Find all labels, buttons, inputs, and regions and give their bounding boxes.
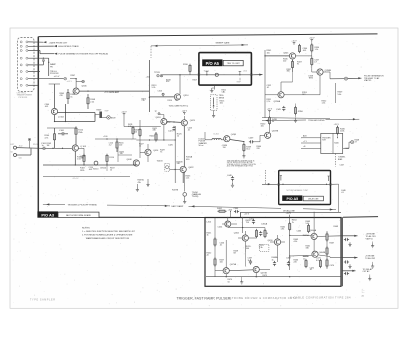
label R455: [246, 246, 252, 250]
wire center mid rail: [136, 139, 175, 140]
label pulse gen out: [364, 74, 384, 82]
potentiometer R309: [95, 110, 102, 118]
label P/O A5 middle dark: [282, 195, 302, 201]
label R317: [193, 80, 198, 82]
x-mark top box entry: [198, 74, 200, 76]
wire Q103 emitter down: [75, 151, 82, 165]
label C426: [168, 144, 174, 146]
svg-text:DELAY LINE: DELAY LINE: [308, 197, 319, 200]
power +6.5V feed: [70, 78, 77, 88]
label C446: [341, 190, 346, 194]
svg-text:43k: 43k: [138, 182, 141, 184]
svg-text:PICKOFF: PICKOFF: [19, 97, 28, 99]
power +15V S440: [334, 124, 340, 127]
svg-text:Q423: Q423: [190, 120, 196, 122]
wire pulse gen trigger pickoff: [28, 51, 57, 55]
svg-text:C447: C447: [340, 164, 344, 166]
label R454: [246, 220, 252, 224]
svg-text:+GATE FROM CRT: +GATE FROM CRT: [49, 41, 68, 44]
resistor R458: [255, 229, 257, 238]
tunnel diode TD433 dashed box: [157, 161, 170, 172]
svg-text:Q432: Q432: [188, 167, 194, 169]
label +100 mid: [103, 136, 107, 138]
wire Q314 collector up: [179, 75, 181, 94]
label P/O A5 top dark: [202, 59, 222, 66]
x-mark mid box exit: [329, 183, 331, 185]
label S440 out r: [355, 139, 360, 143]
svg-text:STROBE DRIVER & COMPARATOR: STROBE DRIVER & COMPARATOR CKTS: [230, 296, 297, 300]
wire top-right left rail: [264, 50, 266, 118]
transistor Q464A: [311, 233, 317, 239]
svg-text:R465A: R465A: [303, 234, 310, 237]
svg-text:+6.5 V: +6.5 V: [67, 81, 73, 83]
svg-text:220: 220: [294, 262, 297, 264]
label trig sens: [219, 95, 225, 105]
svg-text:Q459: Q459: [268, 240, 274, 242]
box bottom inner top: [241, 212, 342, 217]
svg-text:Q 103: Q 103: [80, 146, 87, 148]
wire dl in: [205, 132, 212, 140]
svg-text:FAST RAMP: FAST RAMP: [172, 205, 184, 208]
svg-text:TO A5 CB2: TO A5 CB2: [365, 257, 376, 260]
label R450: [261, 123, 267, 127]
switch S440 box: [321, 133, 343, 153]
label q314 base r: [168, 100, 178, 102]
svg-text:1→: 1→: [362, 289, 365, 291]
wire trig sens down: [212, 110, 215, 118]
wire above box drop: [230, 211, 232, 217]
label rampline: [142, 98, 147, 102]
svg-text:DL402: DL402: [214, 134, 219, 136]
svg-text:1k: 1k: [177, 136, 179, 138]
svg-text:6.8: 6.8: [316, 260, 319, 262]
svg-text:1M: 1M: [47, 145, 50, 147]
junction dots bus extra: [227, 212, 314, 219]
label Q464B: [319, 252, 326, 254]
resistor R453: [214, 237, 216, 266]
wire q464a up: [313, 212, 315, 233]
svg-text:5.6k: 5.6k: [338, 94, 342, 96]
svg-text:Q314: Q314: [183, 95, 189, 97]
power +50V: [121, 112, 127, 116]
label sweep cal: [222, 90, 227, 94]
svg-text:FAST HORIZONTAL BOARD: FAST HORIZONTAL BOARD: [66, 214, 92, 217]
wire y227 row: [228, 227, 265, 228]
resistor R438: [268, 113, 277, 132]
svg-text:100: 100: [119, 145, 122, 147]
wire vertical x65: [65, 104, 67, 122]
label Q436: [231, 134, 237, 136]
ground TD434: [183, 199, 186, 203]
label R405: [120, 151, 125, 155]
wire S440 in1: [301, 135, 321, 138]
label R421: [153, 128, 158, 132]
label Q454: [218, 227, 224, 229]
label output strobe: [366, 234, 377, 241]
resistor R104: [45, 132, 56, 148]
svg-text:Q358B: Q358B: [325, 70, 332, 72]
svg-text:PICKOFF: PICKOFF: [50, 73, 59, 75]
svg-text:C449: C449: [345, 148, 350, 150]
wire to Q437: [254, 135, 265, 142]
label R468A: [272, 256, 279, 261]
resistor R444: [217, 208, 227, 213]
svg-text:R437B: R437B: [172, 190, 179, 192]
svg-text:VIA P95: VIA P95: [364, 79, 372, 82]
power +15V Q345: [291, 41, 297, 45]
svg-text:C448: C448: [227, 175, 232, 177]
label L114: [109, 143, 114, 147]
label D358: [309, 75, 314, 79]
label Q473B: [261, 273, 268, 275]
svg-text:S440: S440: [334, 143, 338, 145]
wire Q418 top lead: [160, 115, 164, 119]
label Q414: [153, 150, 159, 152]
svg-text:J102: J102: [19, 145, 23, 147]
wire Q423 down rail: [184, 126, 192, 166]
wire s440 up feed: [337, 137, 338, 139]
svg-text:TD433: TD433: [157, 161, 164, 163]
svg-text:.001: .001: [89, 169, 93, 171]
ground output trigger: [371, 262, 374, 268]
resistor R343: [298, 44, 300, 53]
label bottombox extra7: [334, 226, 339, 228]
transistor Q423: [181, 120, 187, 126]
connector J1 label: [17, 93, 33, 99]
connector J1 pins: [20, 41, 28, 86]
wire delay line feed: [186, 168, 198, 170]
dimension fast ramp: [148, 205, 281, 209]
wire pin7 +6.5V: [28, 78, 64, 80]
revision marks: [362, 289, 365, 297]
capacitor C349: [276, 106, 285, 111]
label delay misc: [257, 146, 262, 150]
ground output minus: [368, 275, 371, 281]
svg-text:470: 470: [60, 95, 63, 97]
label C471: [316, 258, 321, 262]
label exit sweep: [237, 78, 242, 84]
svg-text:10: 10: [303, 258, 305, 260]
svg-text:C469: C469: [286, 258, 291, 260]
svg-text:HIGH SPEED TRAIN: HIGH SPEED TRAIN: [58, 45, 79, 48]
label R119: [110, 168, 115, 172]
label R351: [267, 99, 272, 103]
wire bottom rail topright: [262, 117, 330, 120]
capacitor edge3: [344, 272, 349, 275]
wire Q345 base: [264, 55, 289, 56]
svg-text:+TO GATE AMP: +TO GATE AMP: [104, 91, 120, 94]
svg-text:2.2: 2.2: [109, 145, 112, 147]
wire +gate from CRT: [28, 41, 46, 43]
label ramp hv: [50, 63, 56, 68]
svg-text:Q462: Q462: [234, 232, 240, 234]
svg-text:Q464B: Q464B: [319, 252, 326, 254]
potentiometer R315 trig sens: [213, 98, 215, 109]
wire lower bus Q304: [54, 121, 95, 122]
notes text: [82, 228, 136, 240]
box bottom right edge double: [341, 217, 343, 286]
wire Q414 up: [147, 144, 149, 162]
svg-text:C313: C313: [158, 91, 162, 93]
resistor R346 v: [291, 59, 293, 72]
svg-text:PULSE GENERATOR TRIGGER PICK O: PULSE GENERATOR TRIGGER PICK OFF FROM A2: [59, 53, 109, 56]
dimension sweep length: [151, 42, 248, 47]
svg-text:100: 100: [220, 261, 223, 263]
svg-text:Q437B: Q437B: [272, 131, 279, 133]
resistor R456 mid: [264, 228, 266, 239]
tunnel diode in box: [215, 73, 218, 76]
label bottombox extra5: [281, 227, 286, 231]
transistor Q459: [274, 239, 280, 245]
label top sub box: [223, 60, 243, 65]
box P/O A5 middle outline: [279, 171, 331, 205]
resistor R316: [183, 64, 191, 75]
svg-text:4.3k: 4.3k: [294, 241, 298, 243]
capacitor edge2: [344, 260, 349, 263]
resistor R439: [242, 143, 252, 158]
node circled plus: [76, 80, 84, 83]
transistor Q418: [161, 119, 167, 125]
label Q462: [234, 232, 240, 234]
label +gate from CRT: [49, 41, 68, 44]
svg-text:1k: 1k: [110, 170, 112, 172]
transistor Q437: [265, 132, 271, 138]
wire input to Q103: [47, 148, 72, 149]
resistor R407: [134, 128, 141, 137]
mech link S440: [335, 154, 337, 167]
wire Q304 emitter: [54, 115, 56, 122]
svg-text:TRIG: TRIG: [309, 77, 314, 79]
svg-text:47: 47: [355, 141, 357, 143]
svg-text:R417: R417: [166, 122, 171, 124]
wire left inner col: [214, 218, 216, 277]
wire Q358B collector out: [323, 72, 344, 79]
svg-text:1.8k: 1.8k: [281, 229, 285, 231]
svg-text:CKT A2: CKT A2: [363, 270, 371, 273]
label Q304 area r2: [45, 104, 51, 108]
svg-text:+15 V: +15 V: [244, 214, 250, 216]
label pulse gen trigger pickoff: [59, 53, 109, 56]
label output trigger: [365, 255, 376, 259]
svg-text:150: 150: [223, 147, 226, 149]
label R341: [267, 50, 273, 54]
power +50V topright: [309, 38, 315, 42]
wire top rail input: [47, 128, 76, 132]
dimension tick sweep: [150, 46, 152, 58]
wire Q459 leads: [270, 235, 285, 242]
svg-text:.001: .001: [303, 50, 307, 52]
label Q459: [268, 240, 274, 242]
input connector J103: [11, 148, 32, 159]
svg-text:C455A: C455A: [261, 222, 268, 225]
svg-text:.01: .01: [188, 130, 191, 132]
tunnel diode TD434: [183, 193, 187, 200]
wire Q418-Q423 link: [167, 121, 181, 122]
wire pin8: [28, 84, 38, 86]
svg-text:220: 220: [257, 148, 260, 150]
transistor Q414: [145, 149, 151, 155]
svg-text:1.5k: 1.5k: [315, 49, 319, 51]
label middle box note: [287, 189, 309, 192]
test point TP313: [162, 93, 164, 97]
box P/O A5 top outline: [199, 53, 252, 86]
label bottombox extra8: [310, 267, 315, 271]
label C344: [303, 48, 309, 52]
wire right col comps: [326, 231, 328, 269]
svg-text:+15 V: +15 V: [267, 109, 273, 111]
svg-text:TD310: TD310: [204, 70, 209, 72]
wire pin4 to node: [28, 58, 49, 59]
label L454: [207, 222, 212, 224]
label R446b: [306, 221, 311, 225]
resistor right col a: [326, 232, 328, 267]
svg-text:4.7k: 4.7k: [45, 137, 49, 139]
svg-text:R469: R469: [334, 226, 339, 228]
transistor Q314: [174, 94, 180, 100]
svg-text:Q414: Q414: [153, 150, 159, 152]
svg-text:R317: R317: [193, 80, 198, 82]
label Q464A: [310, 229, 317, 232]
wire delayline left: [200, 136, 212, 138]
dimension trigger drive: [262, 118, 359, 122]
label +6.5 row2: [67, 81, 73, 83]
svg-text:C463: C463: [297, 231, 302, 233]
svg-text:10k: 10k: [134, 131, 137, 133]
svg-text:R475: R475: [263, 275, 268, 277]
resistor R110: [75, 127, 84, 145]
label Q432: [188, 167, 194, 169]
wire x95 vertical: [94, 113, 96, 122]
label R103: [47, 143, 52, 147]
label R427: [139, 144, 144, 148]
label R431B: [177, 161, 184, 165]
svg-text:MAINTENANCE AND CIRCUIT DES: MAINTENANCE AND CIRCUIT DESCRIPTION: [86, 237, 130, 240]
svg-text:NOT REPLACEABLE T UNIT: NOT REPLACEABLE T UNIT: [287, 189, 309, 192]
svg-text:+15 V: +15 V: [291, 41, 297, 43]
capacitor C465 row: [249, 259, 290, 266]
label R470: [303, 256, 308, 260]
resistor R446: [336, 126, 345, 137]
svg-text:R314: R314: [168, 100, 172, 102]
svg-text:100k: 100k: [340, 131, 344, 133]
component middle box right: [328, 176, 330, 181]
box bottom board outline: [205, 218, 341, 287]
svg-text:Q306: Q306: [82, 85, 88, 87]
label DL402: [199, 139, 208, 148]
label Q345: [283, 52, 289, 54]
wire r112 top: [78, 148, 84, 155]
label dl top: [214, 134, 219, 136]
label +150V: [228, 209, 233, 211]
wire bottom row link: [215, 270, 270, 271]
label R466: [294, 259, 299, 263]
component in box tick2: [239, 71, 242, 74]
svg-text:1n: 1n: [42, 145, 44, 147]
label C110: [89, 167, 94, 171]
svg-text:6.8k: 6.8k: [128, 126, 132, 128]
wire lower bus input: [43, 164, 136, 165]
wire S440 in3: [301, 146, 321, 148]
capacitor C102: [41, 143, 47, 150]
label R313: [152, 85, 158, 89]
label R350: [315, 47, 320, 51]
svg-text:1.5k: 1.5k: [322, 103, 326, 105]
resistor R116: [116, 139, 118, 152]
wire mid rail: [95, 138, 136, 139]
transistor Q473A: [223, 240, 229, 274]
wire through middle box: [279, 184, 331, 185]
wire q464b out: [318, 255, 342, 258]
mech link into box: [265, 170, 267, 184]
svg-text:68: 68: [234, 253, 236, 255]
svg-text:SWEEP GATE: SWEEP GATE: [216, 42, 231, 45]
dimension trigger pickoff: [43, 203, 148, 206]
svg-text:TRIGGER, FAST RAMP, PULSER,: TRIGGER, FAST RAMP, PULSER,: [177, 297, 232, 301]
svg-text:R467: R467: [330, 243, 335, 245]
svg-text:P/O A5: P/O A5: [206, 61, 220, 66]
resistor R356: [294, 104, 303, 116]
label Q306 up: [71, 75, 76, 77]
wire to Q314: [149, 96, 174, 98]
svg-text:Q408: Q408: [127, 159, 133, 161]
wire Q423 top lead: [182, 111, 188, 120]
svg-text:TD110: TD110: [93, 168, 100, 170]
svg-text:+50 V: +50 V: [182, 111, 188, 113]
label Q314: [183, 95, 189, 97]
title main: [177, 295, 351, 300]
wire Q436 out: [230, 140, 245, 143]
resistor R114: [106, 154, 115, 165]
svg-text:27k: 27k: [142, 100, 145, 102]
capacitor C447: [337, 164, 344, 167]
resistor R348: [311, 57, 320, 69]
resistor R470 sym: [305, 259, 322, 268]
svg-text:5.2k: 5.2k: [152, 87, 156, 89]
board outline top border: [38, 34, 377, 37]
label Q423: [190, 120, 196, 122]
label R429: [160, 150, 166, 154]
transistor Q103: [72, 145, 78, 151]
x-mark top box exit: [250, 74, 252, 76]
svg-text:SENS: SENS: [219, 97, 225, 99]
pot dashed box bottom: [260, 244, 269, 251]
label TD314 note: [169, 105, 189, 107]
svg-text:Q345: Q345: [283, 52, 289, 54]
resistor R463t: [307, 224, 309, 233]
board outline bottom-right segment: [343, 216, 378, 219]
label Q345 extra: [283, 59, 288, 63]
label q436 under: [223, 145, 228, 149]
label C467: [248, 258, 253, 262]
svg-text:Q358A: Q358A: [274, 100, 281, 103]
wire Q418 down: [163, 125, 165, 140]
test point TP418: [155, 111, 161, 115]
svg-text:+15 V: +15 V: [334, 124, 340, 126]
label R461: [306, 245, 311, 249]
wire Q432 base link: [169, 168, 180, 170]
capacitor C452 above: [249, 218, 255, 224]
note block center: [227, 159, 257, 167]
label C469: [286, 258, 291, 260]
svg-text:Q473A: Q473A: [230, 263, 237, 266]
label box top inner: [204, 70, 248, 72]
transistor Q464B: [312, 251, 318, 257]
label CR110: [100, 168, 107, 170]
svg-text:3k: 3k: [272, 121, 274, 123]
wire Q304 base net: [49, 84, 60, 108]
capacitor C448: [227, 175, 234, 187]
wire pulse gen trig out: [348, 77, 362, 79]
